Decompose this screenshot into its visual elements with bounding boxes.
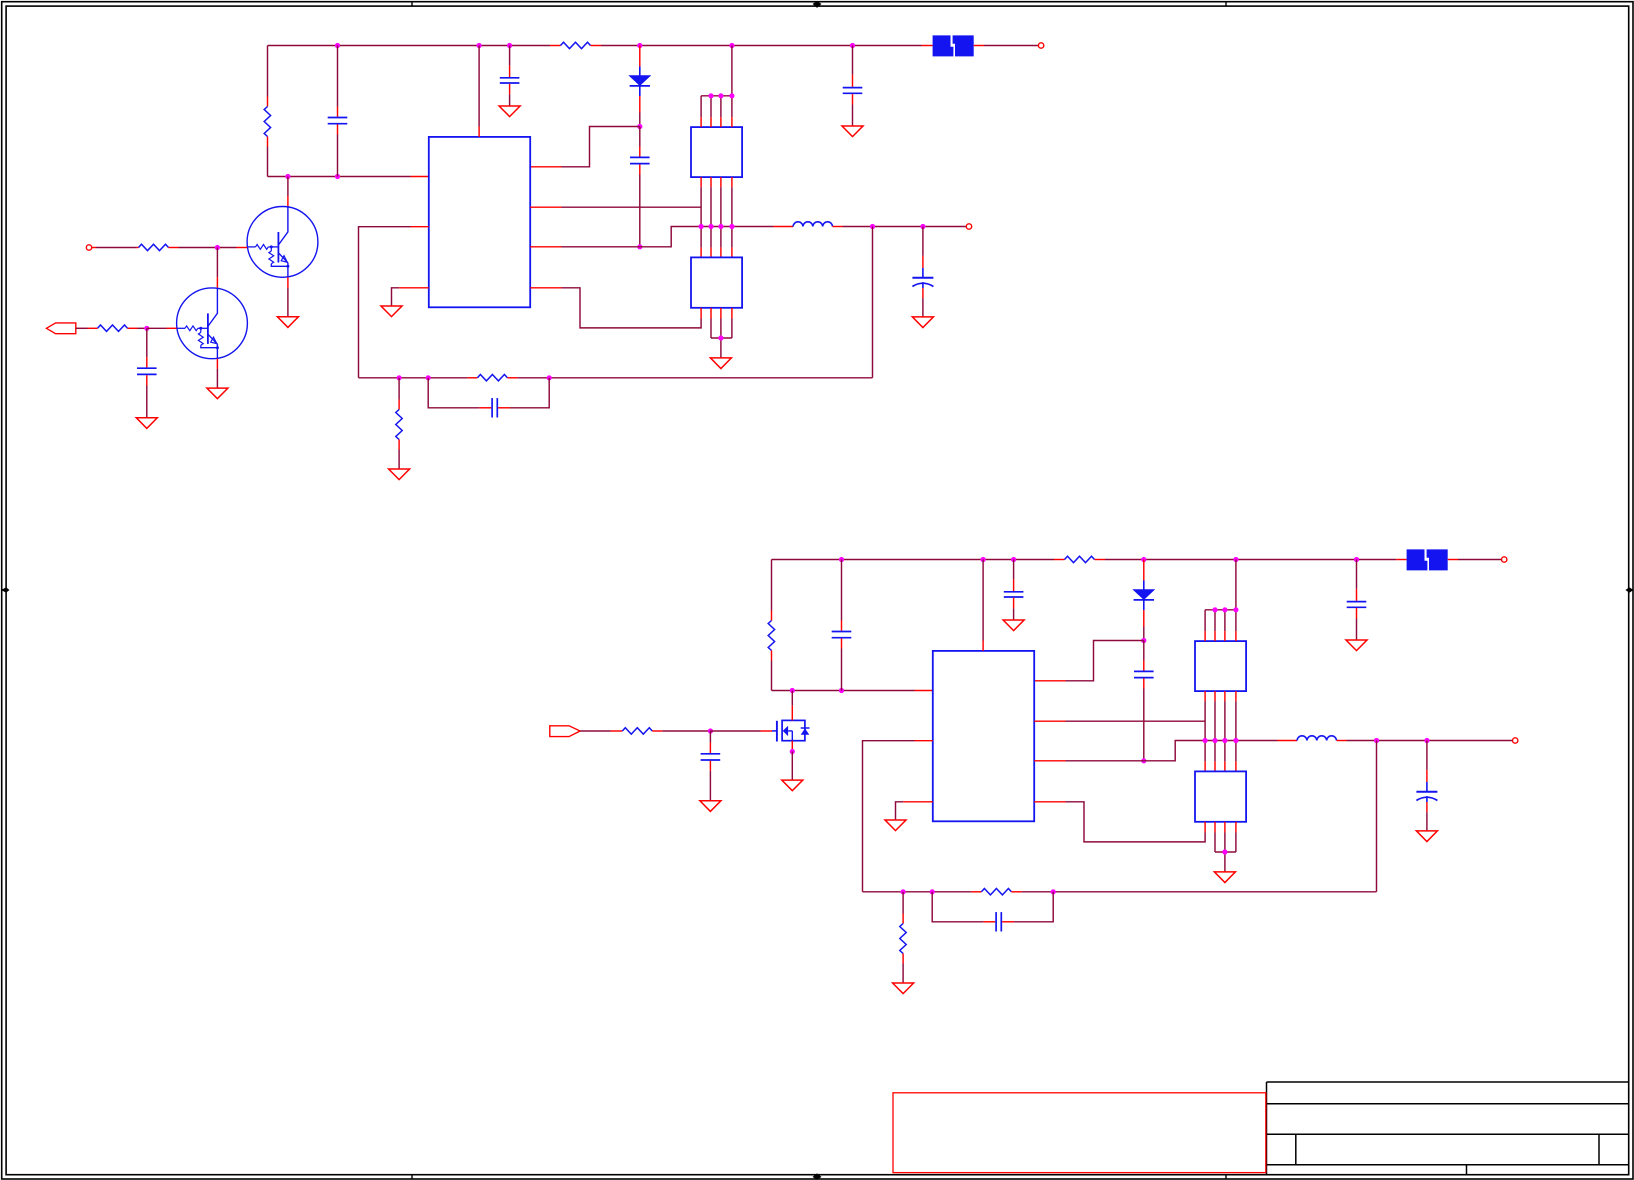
resistor R16 stub top [902,914,904,924]
capacitor C12 stub top [841,621,843,631]
wire C7 branch [922,227,924,256]
border center mark top [813,1,822,8]
pin stub U1 right pin3 [530,246,561,248]
wire U11 pin2 to column [1066,720,1206,722]
junction bottomrail2-M1 [790,688,795,693]
wire U11 VIN pin (top) [982,560,984,641]
pin stub U1 left GND [399,287,429,289]
junction D1-node [637,124,642,129]
junction U2b [718,93,723,98]
resistor R1 [264,107,270,137]
pin stub M1 gate [761,730,773,732]
pin stubs U2 bottom [701,177,732,187]
junction U2c [729,93,734,98]
title block outline [1267,1082,1629,1175]
fuse F1 [933,35,974,56]
capacitor C12 stub bottom [841,639,843,649]
capacitor C17 stub top [1426,770,1428,782]
pin stub M1 drain [791,706,793,721]
fuse F1 stub right [974,45,984,47]
inductor module U12 [1195,641,1246,691]
pin stub Q2 emitter [216,359,218,369]
junction SW21 [1203,738,1208,743]
junction U12c [1233,607,1238,612]
inductor L11 [1297,736,1336,741]
wire R6 to ground [398,450,400,470]
fuse F1 stub left [922,45,933,47]
wire U2 top pins [701,46,732,118]
pin stub Q1 emitter [287,277,289,288]
capacitor C17 (polarized) [1416,782,1437,802]
wire C2 branch upper [337,46,339,107]
resistor R3 stub left [550,45,561,47]
resistor R11 stub top [771,611,773,621]
junction FB2-C16L [930,889,935,894]
wire U1 pinR1 net [530,127,640,167]
wire R4 to node [138,327,147,329]
revision box (red) [893,1093,1266,1173]
resistor R1 stub bottom [267,137,269,147]
capacitor C1 stub top [146,357,148,367]
wire PWM to R4 [76,327,88,329]
resistor R11 [768,621,774,651]
capacitor C11 stub top [709,743,711,754]
diode D11 stub top [1143,560,1145,581]
resistor R6 stub bottom [398,440,400,450]
pin stub U11 right pin4 [1034,801,1065,803]
junction bottomrail-C2 [335,174,340,179]
resistor R17 [981,889,1011,895]
inductor L11 stub right [1337,740,1347,742]
diode D1 stub bottom [639,96,641,112]
wire output 2 [1347,740,1513,742]
capacitor C13 [1004,592,1024,597]
wire U1 VIN pin (top) [478,46,480,127]
border center mark bottom [813,1173,822,1180]
wire U11 GND pin [896,802,904,820]
wire D1 to node [639,113,641,127]
capacitor C15 stub bottom [1143,678,1145,688]
resistor R11 stub bottom [771,651,773,661]
wire U1 pin3 to SW node [562,227,774,247]
wire C11 to ground [709,771,711,801]
junction SW23 [1222,738,1227,743]
pin stubs U2 top [701,117,732,127]
junction rail-D1 [637,43,642,48]
wire Q2 emitter to ground [216,369,218,388]
ground below U11 [885,820,906,831]
junction FB-C6L [426,375,431,380]
resistor R17 stub left [971,891,981,893]
border zone tick bottom-right [1225,1175,1227,1179]
wire C4 branch [852,46,854,75]
wire C16 branch [932,892,1053,922]
capacitor C4 stub bottom [852,94,854,104]
ground below C1 [136,418,157,429]
ground below Q1 [277,317,298,328]
wire FB vertical [872,227,874,378]
wire C4 to ground [852,105,854,127]
wire left loop vertical [267,46,269,177]
junction U3 gnd [718,335,723,340]
wire U11 FB to feedback [863,741,915,892]
capacitor C2 stub top [337,107,339,117]
capacitor C13 stub bottom [1013,598,1015,609]
capacitor C5 [630,157,650,163]
resistor R6 stub top [398,400,400,410]
wire U3 pins 2-4 join [711,319,732,358]
pin stub U11 left GND [903,801,933,803]
wire left loop vertical 2 [771,560,773,691]
junction out2-C17 [1424,738,1429,743]
resistor R7 stub right [507,377,517,379]
pin stub U1 right pin2 [530,206,561,208]
wire D11 to node [1143,627,1145,641]
wire C13 branch [1013,560,1015,580]
junction out-C7 [920,224,925,229]
resistor R16 stub bottom [902,954,904,964]
transistor M1 (NMOS) [772,720,810,741]
pin stub U11 right pin2 [1034,720,1065,722]
resistor R3 [561,42,591,48]
pin stub U1 top [478,127,480,137]
junction SW24 [1233,738,1238,743]
transistor Q1 [247,207,318,278]
wire U1 GND pin [392,288,400,306]
capacitor C1 [137,368,157,374]
ground below C11 [700,801,721,812]
capacitor C12 [832,632,852,638]
wire U1 pin2 to column [562,206,702,208]
pin stub U11 top [982,641,984,651]
junction rail-C3 [507,43,512,48]
capacitor C4 [843,88,863,94]
resistor R12 [622,728,652,734]
wire M1 drain [791,691,793,706]
resistor R7 [477,375,507,381]
regulator U11 [933,651,1034,821]
inductor L1 stub right [833,226,843,228]
ground below R6 [389,469,410,480]
wire C6 branch [428,378,549,408]
ground below R16 [893,983,914,994]
pin stub U1 right pin4 [530,287,561,289]
border center mark left [1,587,9,592]
pin stub U1 left FB [411,226,429,228]
capacitor C17 stub bottom [1426,802,1428,812]
capacitor C4 stub top [852,75,854,87]
junction rail2-C13 [1011,557,1016,562]
junction SW4 [729,224,734,229]
wire U11 pinR1 net [1034,641,1144,681]
junction rail-C2 [335,43,340,48]
wire output [843,226,967,228]
wire M1 source to ground [791,752,793,781]
wire C3 to ground [509,94,511,106]
junction M1 source [790,749,795,754]
capacitor C5 stub bottom [639,164,641,174]
port VOUT (circle) [966,224,971,229]
junction FB2-C16R [1051,889,1056,894]
junction PWM-C1 [144,326,149,331]
junction PWM2-C11 [708,728,713,733]
wire U11 pin4 to U13 [1066,802,1206,842]
pin stubs U3 bottom [701,308,732,319]
resistor R4 [98,325,128,331]
ground below U1 [381,306,402,317]
wire C5 branch upper [639,127,641,147]
wire U11 pin3 to SW node [1066,741,1278,761]
junction SW1 [699,224,704,229]
pin stub U11 left FB [915,740,933,742]
ground below C4 [842,126,863,137]
wire C2 branch lower [337,135,339,177]
port VOUT2 (circle) [1513,738,1518,743]
wire bottom rail 2 [772,690,915,692]
wire C7 to ground [922,298,924,317]
wire C17 to ground [1426,812,1428,831]
diode D1 stub top [639,46,641,67]
wire to VIN2 port [1458,559,1501,561]
resistor R2 stub left [137,247,139,249]
capacitor C11 [701,754,721,760]
junction rail2-U11 [981,557,986,562]
wire FB2 vertical [1376,741,1378,892]
resistor R3 stub right [591,45,602,47]
capacitor C16 [996,912,1001,931]
ground below C14 [1346,640,1367,651]
capacitor C1 stub bottom [146,375,148,385]
junction U13 gnd [1222,849,1227,854]
wire Q2 collector [216,248,218,278]
junction EN-Q2 [215,245,220,250]
pin stub U11 left pin1 [915,690,933,692]
pin stub U11 right pin3 [1034,760,1065,762]
capacitor C6 stub left [479,407,491,409]
pin stubs U12 bottom [1205,691,1236,701]
wire C14 to ground [1356,619,1358,641]
wire U1 pin4 to U3 [562,288,702,328]
wire U1 FB to feedback [359,227,411,378]
junction D11-node [1141,638,1146,643]
wire to VIN port [984,45,1038,47]
pin stub M1 source [791,741,793,749]
wire bottom rail [268,176,411,178]
inductor L11 stub left [1278,740,1298,742]
inductor L1 stub left [774,226,794,228]
wire C11 branch [709,731,711,743]
resistor R1 stub top [267,97,269,107]
resistor R13 stub right [1095,559,1106,561]
junction FB-R6 [397,375,402,380]
junction SW22 [1212,738,1217,743]
ground below U13 [1214,872,1235,883]
capacitor C7 stub bottom [922,288,924,298]
port VIN2 (circle) [1502,557,1507,562]
capacitor C16 stub right [1002,921,1014,923]
wire C12 branch lower [841,649,843,691]
border center mark right [1626,587,1634,592]
junction bottomrail2-C12 [839,688,844,693]
wire node to Q2 base [147,327,167,329]
junction rail2-C12 [839,557,844,562]
transistor Q2 [177,288,248,359]
fuse F2 stub left [1396,559,1406,561]
inductor module U2 [691,127,742,177]
junction bottomrail-Q1 [285,174,290,179]
junction rail-U2 [729,43,734,48]
junction out2-FB [1374,738,1379,743]
junction U12b [1222,607,1227,612]
pin stub Q2 collector [216,277,218,288]
wire U13 pins 2-4 join [1215,833,1236,872]
capacitor C3 stub top [509,65,511,77]
wire top rail VIN2 [772,559,1397,561]
wire node to M1 gate [710,730,760,732]
capacitor C14 stub bottom [1356,608,1358,618]
wire U12 top pins [1205,560,1236,632]
junction C5-SWnet [637,244,642,249]
port EN (circle) [86,245,91,250]
junction C15-SWnet [1141,758,1146,763]
junction SW3 [718,224,723,229]
ground below U3 [710,358,731,369]
ground below Q2 [207,388,228,399]
inductor module U13 [1195,771,1246,821]
junction FB2-R16 [901,889,906,894]
ground below C13 [1003,620,1024,631]
border zone tick top-right [1225,2,1227,6]
wire C1 to ground [146,386,148,418]
pin stubs U13 bottom [1205,822,1236,833]
pin stubs U13 top [1205,761,1236,771]
pin stub U1 left pin1 [411,176,429,178]
wire R12 to node [662,730,710,732]
port PWM2 (arrow) [550,726,580,737]
port PWM (arrow) [46,323,75,334]
capacitor C5 stub top [639,147,641,157]
wire R16 to ground [902,964,904,984]
wire C13 to ground [1013,608,1015,620]
wire FB2 horizontal [863,891,1377,893]
wire R6 branch [398,378,400,400]
resistor R4 stub left [88,327,98,329]
resistor R6 [396,410,402,440]
capacitor C3 stub bottom [509,84,511,95]
junction U12a [1212,607,1217,612]
regulator U1 [429,137,530,307]
wire SW column 2 [1205,701,1236,761]
resistor R16 [900,924,906,954]
ground below C17 [1416,831,1437,842]
junction rail2-D11 [1141,557,1146,562]
pin stubs U12 top [1205,631,1236,641]
wire C1 branch [146,328,148,357]
junction rail2-U12 [1233,557,1238,562]
capacitor C7 stub top [922,256,924,268]
wire top rail VIN [268,45,922,47]
diode D11 [1134,581,1154,611]
ground below C3 [499,106,520,117]
capacitor C13 stub top [1013,579,1015,591]
capacitor C11 stub bottom [709,761,711,771]
capacitor C15 stub top [1143,661,1145,671]
capacitor C14 [1347,602,1367,608]
wire C12 branch upper [841,560,843,621]
resistor R4 stub right [128,327,138,329]
junction rail-U1 [477,43,482,48]
capacitor C6 stub right [498,407,510,409]
wire C3 branch [509,46,511,66]
resistor R12 stub right [652,730,662,732]
capacitor C14 stub top [1356,589,1358,601]
junction U2a [708,93,713,98]
ground below C7 [912,317,933,328]
resistor R2 [139,244,169,250]
port EN stub [92,247,96,249]
wire FB horizontal [359,377,873,379]
capacitor C15 [1134,671,1154,677]
resistor R17 stub right [1011,891,1021,893]
ground below M1 [782,780,803,791]
capacitor C7 (polarized) [912,268,933,288]
fuse F2 [1407,549,1448,570]
wire R16 branch [902,892,904,914]
junction SW2 [708,224,713,229]
port VIN (circle) [1038,43,1043,48]
diode D1 [630,67,650,97]
capacitor C2 stub bottom [337,125,339,135]
resistor R12 stub left [611,730,623,732]
wire C15 branch upper [1143,641,1145,661]
pin stub Q2 base [167,327,177,329]
resistor R2 stub right [169,247,179,249]
capacitor C6 [492,398,497,417]
wire EN to R2 [96,247,137,249]
resistor R7 stub left [467,377,477,379]
pin stub Q1 base [237,247,248,249]
border zone tick top-left [411,2,413,6]
junction rail-C4 [850,43,855,48]
border zone tick bottom-left [411,1175,413,1179]
inductor module U3 [691,257,742,307]
junction out-FB [870,224,875,229]
capacitor C3 [500,78,520,83]
capacitor C2 [328,118,348,124]
wire C14 branch [1356,560,1358,589]
diode D11 stub bottom [1143,610,1145,626]
pin stub Q1 collector [287,196,289,207]
resistor R13 [1065,556,1095,562]
wire C15 branch lower [1143,689,1145,761]
fuse F2 stub right [1448,559,1458,561]
wire C17 branch [1426,741,1428,770]
capacitor C16 stub left [983,921,995,923]
wire SW column [701,187,732,247]
wire C5 branch lower [639,175,641,247]
junction rail2-C14 [1354,557,1359,562]
wire Q1 emitter to ground [287,288,289,317]
wire R2 to Q1 base [179,247,237,249]
wire Q1 collector [287,177,289,197]
wire PWM2 to R12 [580,730,610,732]
inductor L1 [793,222,832,227]
junction FB-C6R [547,375,552,380]
pin stubs U3 top [701,247,732,257]
resistor R13 stub left [1054,559,1065,561]
